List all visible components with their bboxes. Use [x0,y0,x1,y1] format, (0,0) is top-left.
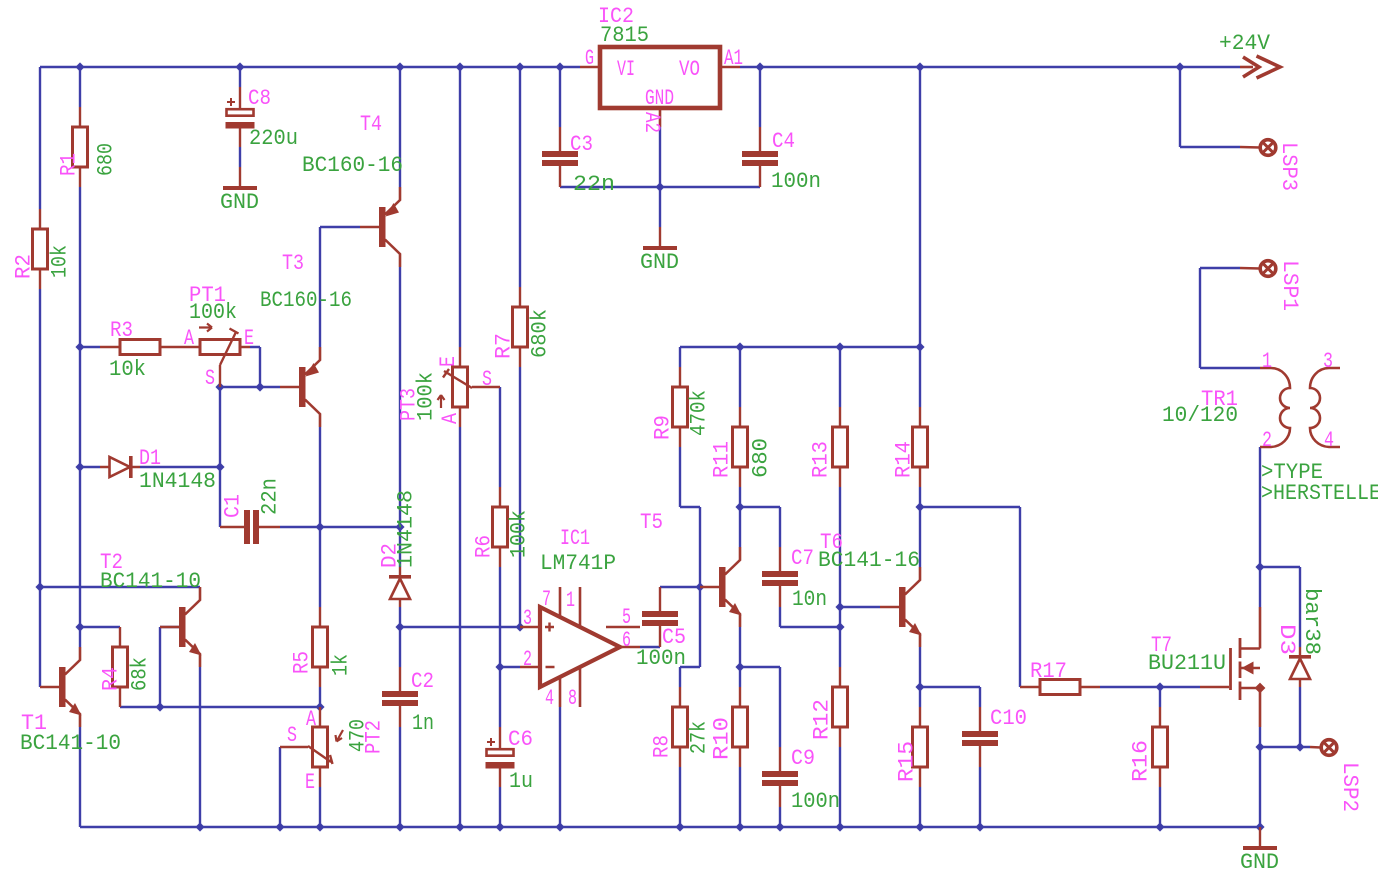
svg-text:7: 7 [542,587,551,612]
wire net VIN top rail [40,67,580,209]
resistor R17 [1020,686,1100,688]
svg-text:1n: 1n [412,711,434,736]
wire net R8 bottom [679,767,681,827]
resistor R5 [319,607,321,687]
wire net C7 bottom [780,607,840,627]
junction (80,627) [75,622,84,631]
svg-text:10k: 10k [47,245,72,278]
wire net PT1 E to T3 base [220,347,280,387]
wire net C10 bottom [979,767,981,827]
junction (320,827) [315,822,324,831]
svg-text:68k: 68k [127,657,152,691]
wire net VIN drop to C8 [239,67,241,87]
IC U IC2 (7815) [600,47,720,108]
wire net +24V to LSP3 [1180,67,1240,147]
wire net R11 drop [739,347,741,407]
wire net T3 emitter to T4 base [320,227,360,347]
junction (80,347) [75,342,84,351]
svg-text:LSP3: LSP3 [1276,142,1301,191]
junction (400,627) [395,622,404,631]
svg-text:+24V: +24V [1219,31,1271,56]
svg-text:VO: VO [679,57,700,82]
svg-text:2: 2 [1262,428,1272,453]
potentiometer PT1 [180,346,250,348]
svg-text:S: S [287,723,297,748]
junction (520,67) [515,62,524,71]
svg-text:LM741P: LM741P [540,551,616,576]
svg-text:R4: R4 [98,667,123,691]
svg-text:10/120: 10/120 [1162,403,1238,428]
svg-text:>HERSTELLER: >HERSTELLER [1261,481,1378,506]
wire net R16 bottom [1159,787,1161,827]
resistor R16 [1159,707,1161,787]
svg-text:LSP1: LSP1 [1277,260,1302,311]
junction (740,667) [735,662,744,671]
resistor R8 [679,687,681,767]
wire net R10 bottom [739,767,741,827]
wire net R15 bottom [919,787,921,827]
junction (740,827) [735,822,744,831]
wire net T5 emitter R10 C9 [740,627,780,747]
junction (920,67) [915,62,924,71]
svg-text:2: 2 [523,647,532,672]
diode D2 [399,567,401,607]
junction (1300,747) [1295,742,1304,751]
wire net PT3 A down [459,427,461,827]
transistor T3 [299,367,306,407]
junction (200,827) [195,822,204,831]
resistor R13 [839,407,841,487]
junction (840,347) [835,342,844,351]
svg-text:C6: C6 [508,727,533,752]
wire net VIN drop to T4 emitter [399,67,401,187]
svg-text:100n: 100n [791,789,840,814]
junction (80,67) [75,62,84,71]
wire net VIN drop to C3 [559,67,561,127]
wire net D2 anode to op-amp +IN [400,367,520,667]
svg-text:470: 470 [345,719,370,752]
wire net C2 bottom [399,727,401,827]
wire net VIN drop to R1 [79,67,81,107]
junction (980,827) [975,822,984,831]
wire net T2 emitter down [199,667,201,827]
svg-text:1k: 1k [328,654,353,676]
junction (520,627) [515,622,524,631]
svg-text:1: 1 [1262,349,1272,374]
resistor R9 [679,367,681,447]
junction (680,827) [675,822,684,831]
junction (280,827) [275,822,284,831]
junction (1260,827) [1255,822,1264,831]
svg-text:A1: A1 [724,46,743,71]
wire net VIN drop to R7 [519,67,521,287]
wire net opamp pin4 down [559,707,561,827]
svg-text:E: E [436,356,461,367]
resistor R12 [839,667,841,747]
junction (920,507) [915,502,924,511]
svg-text:R12: R12 [809,699,834,740]
wire net GND1 C3-C4 [560,127,760,227]
resistor R10 [739,687,741,767]
svg-text:T3: T3 [282,251,304,276]
wire net +24V drop to R14 row [919,67,921,347]
wire net R17-R16-T7 gate [1100,687,1200,707]
junction (1160,687) [1155,682,1164,691]
svg-text:C10: C10 [990,706,1027,731]
transistor T7 (MOSFET) [1200,686,1229,688]
svg-text:3: 3 [1323,349,1333,374]
svg-text:R3: R3 [110,318,133,343]
wire net PT1 S to C1 [219,387,221,527]
svg-text:R7: R7 [491,333,516,359]
junction (920,687) [915,682,924,691]
svg-text:4: 4 [545,686,554,711]
svg-text:C7: C7 [791,546,814,571]
svg-text:BC160-16: BC160-16 [260,288,352,313]
capacitor C2 [399,667,401,727]
wire net T6 emitter R15 C10 [920,647,980,707]
capacitor C1 [220,526,280,528]
svg-text:R15: R15 [894,741,919,782]
svg-text:10n: 10n [792,587,827,612]
svg-text:LSP2: LSP2 [1337,762,1362,812]
wire net R9-T5 base-R8 [660,447,700,687]
svg-text:C3: C3 [570,132,593,157]
wire net D1 cathode [140,466,220,468]
junction (160,707) [155,702,164,711]
svg-text:1: 1 [566,588,575,613]
junction (80,467) [75,462,84,471]
svg-text:G: G [585,46,594,71]
resistor R15 [919,707,921,787]
junction (500,667) [495,662,504,671]
svg-text:R17: R17 [1030,659,1067,684]
junction (320,707) [315,702,324,711]
svg-text:BC160-16: BC160-16 [302,153,403,178]
wire net +24V rail [740,66,1240,68]
op-amp IC1 [540,607,620,687]
svg-text:BC141-16: BC141-16 [818,548,920,573]
capacitor C9 [779,747,781,807]
solder pad LSP3 [1240,146,1260,149]
svg-text:S: S [205,366,215,391]
svg-text:100k: 100k [189,300,237,325]
svg-text:D3: D3 [1274,624,1299,655]
junction (920,347) [915,342,924,351]
svg-text:1N4148: 1N4148 [139,469,216,494]
resistor R6 [499,487,501,567]
wire net R13 drop [839,347,841,407]
resistor R3 [100,346,180,348]
svg-text:R16: R16 [1128,740,1153,782]
junction (760,67) [755,62,764,71]
svg-text:GND: GND [220,190,259,215]
svg-text:R1: R1 [56,153,81,176]
svg-text:D1: D1 [139,446,161,471]
diode D3 [1299,647,1301,687]
wire net PT2 E down [319,787,321,827]
svg-text:100k: 100k [506,510,531,558]
svg-text:R5: R5 [289,651,314,674]
capacitor C8 (polarized) [239,87,241,147]
junction (220,467) [215,462,224,471]
svg-text:C8: C8 [248,86,271,111]
svg-text:680: 680 [748,438,773,478]
potentiometer PT2 [319,707,321,787]
junction (780,827) [775,822,784,831]
resistor R1 [79,107,81,187]
svg-text:A: A [306,707,317,732]
wire net T3 collector to R5 and C1 [280,427,400,607]
svg-text:R8: R8 [649,735,674,758]
transistor T5 [719,567,726,607]
wire net R13-T6 base [840,487,880,667]
svg-text:VI: VI [617,57,635,82]
junction (40,587) [35,582,44,591]
wire net R4 bottom to PT2 A row [120,687,320,707]
wire net op-amp output to C5 [640,646,660,648]
ground symbol GND (IC2) [659,227,661,246]
svg-text:100k: 100k [413,372,438,421]
junction (220,387) [215,382,224,391]
wire net T2 base [160,627,180,707]
svg-text:GND: GND [645,86,674,111]
capacitor C10 [979,707,981,767]
junction (700,587) [695,582,704,591]
svg-text:680k: 680k [527,309,552,358]
svg-text:R6: R6 [471,535,496,558]
junction (1180,67) [1175,62,1184,71]
svg-text:3: 3 [523,606,532,631]
svg-text:IC1: IC1 [560,526,590,551]
wire net R2 bottom to T1 base [39,289,41,687]
power symbol +24V arrow [1240,66,1253,69]
junction (460,67) [455,62,464,71]
diode D1 [100,466,140,468]
svg-text:R10: R10 [709,717,734,760]
svg-text:BU211U: BU211U [1148,651,1226,676]
wire net R1-R3-D1-R4 chain [80,187,120,647]
junction (240,67) [235,62,244,71]
resistor R7 [519,287,521,367]
svg-text:R9: R9 [650,415,675,440]
svg-text:R13: R13 [808,441,833,478]
svg-text:220u: 220u [249,126,298,151]
potentiometer PT3 [459,347,461,427]
capacitor C4 [759,127,761,187]
svg-text:T4: T4 [360,112,382,137]
junction (1160,827) [1155,822,1164,831]
junction (560,67) [555,62,564,71]
svg-text:BC141-10: BC141-10 [20,731,121,756]
wire net T2 collector row [40,586,200,588]
svg-text:7815: 7815 [600,23,649,48]
wire net T4 collector to D2 [399,267,401,567]
transistor T6 [899,587,906,627]
capacitor C6 (polarized) [499,727,501,787]
junction (400,827) [395,822,404,831]
svg-text:S: S [482,367,492,392]
junction (920,827) [915,822,924,831]
transistor T4 [379,207,386,247]
junction (740,347) [735,342,744,351]
svg-text:C2: C2 [411,669,434,694]
resistor R4 [119,627,121,707]
junction (500,827) [495,822,504,831]
svg-text:10k: 10k [109,357,146,382]
capacitor C7 [779,547,781,607]
svg-text:A: A [184,326,195,351]
junction (840,827) [835,822,844,831]
svg-text:22n: 22n [573,172,615,197]
junction (460,827) [455,822,464,831]
junction (840,607) [835,602,844,611]
svg-text:4: 4 [1324,428,1334,453]
junction (400,527) [395,522,404,531]
wire net C6 bottom [499,787,501,827]
svg-text:BC141-10: BC141-10 [100,569,201,594]
wire net R11-T5 collector-C7 [740,487,780,547]
solder pad LSP1 [1240,267,1260,270]
resistor R14 [919,407,921,487]
solder pad LSP2 [1310,746,1321,749]
wire net LSP1 to TR1 pin1 [1200,268,1260,368]
svg-text:T5: T5 [640,510,663,535]
junction (1260,567) [1255,562,1264,571]
junction (1260,747) [1255,742,1264,751]
svg-text:27k: 27k [686,721,711,754]
transistor T2 [179,607,186,647]
svg-text:22n: 22n [257,478,282,515]
svg-text:A2: A2 [639,112,664,133]
svg-text:R14: R14 [891,441,916,478]
wire net R6 to op-amp -IN and C6 [500,567,520,727]
wire net R14-T6 collector to R17 [920,487,1020,687]
wire net TR1 pin2 to T7 drain and D3 [1260,447,1300,647]
wire net VIN drop to PT3 E [459,67,461,347]
svg-text:1N4148: 1N4148 [393,490,418,568]
ground symbol GND (output) [1259,827,1261,846]
junction (740,507) [735,502,744,511]
junction (260,387) [255,382,264,391]
transistor T1 [59,667,66,707]
svg-text:E: E [305,770,315,795]
wire net GND2 C8 [239,147,241,167]
capacitor C3 [559,127,561,187]
wire net PT3 S to R6 [499,387,501,487]
junction (660,187) [655,182,664,191]
capacitor C5 [659,587,661,647]
wire net GND bottom rail [80,727,1260,827]
svg-text:6: 6 [622,628,631,653]
svg-text:8: 8 [568,686,577,711]
resistor R2 [39,209,41,289]
ground symbol GND (C8) [239,167,241,186]
wire net R12 bottom [839,747,841,827]
svg-text:100n: 100n [771,169,821,194]
wire net T7 source D3 LSP2 [1260,687,1310,827]
svg-text:100n: 100n [636,646,686,671]
resistor R11 [739,407,741,487]
svg-text:E: E [244,326,254,351]
svg-text:R11: R11 [709,441,734,478]
transformer TR1 [1260,368,1290,447]
svg-text:5: 5 [622,605,631,630]
wire net PT2 S down [279,747,281,827]
svg-text:R2: R2 [11,254,36,279]
wire net +24V drop to C4 [759,67,761,127]
junction (320,527) [315,522,324,531]
wire net R9 top row [680,347,920,367]
svg-text:GND: GND [1240,850,1279,875]
junction (560,827) [555,822,564,831]
svg-text:470k: 470k [686,390,711,436]
junction (840,627) [835,622,844,631]
svg-text:GND: GND [640,250,679,275]
svg-text:1u: 1u [509,769,533,794]
wire net R14 drop [919,347,921,407]
wire net C9 bottom [779,807,781,827]
svg-text:680: 680 [93,143,118,176]
junction (400,67) [395,62,404,71]
svg-text:C9: C9 [791,746,815,771]
svg-text:bar38: bar38 [1299,588,1324,655]
svg-text:C4: C4 [772,129,795,154]
svg-text:A: A [438,412,463,424]
svg-text:C1: C1 [220,494,245,518]
